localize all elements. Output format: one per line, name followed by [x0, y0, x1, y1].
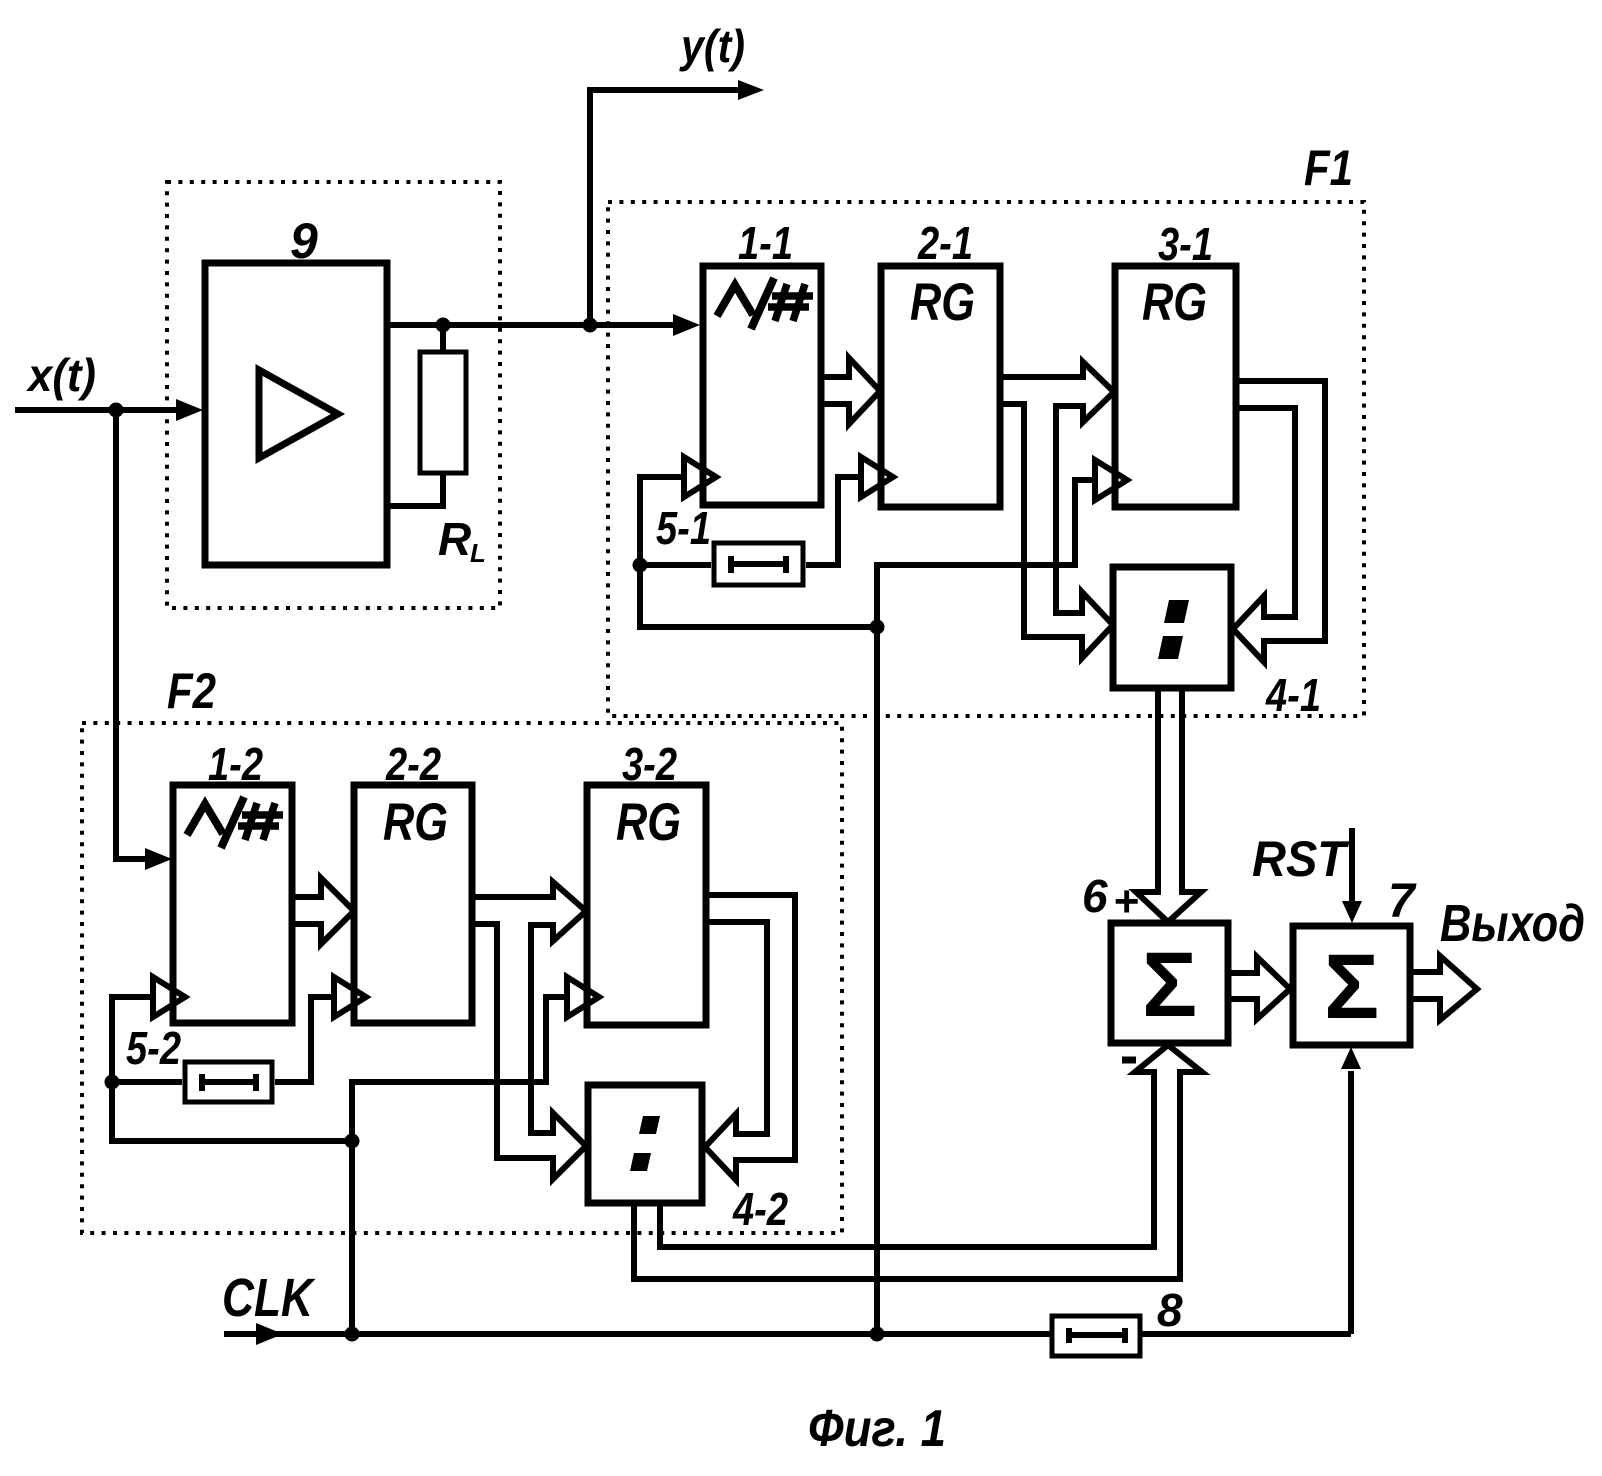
symbol ADC in 1-2	[187, 797, 283, 848]
svg-text:y(t): y(t)	[679, 20, 745, 72]
svg-text:+: +	[1113, 877, 1139, 926]
delay element 5-2	[185, 1062, 272, 1102]
svg-text:Фиг. 1: Фиг. 1	[808, 1400, 946, 1458]
node junction F1 clock mid	[870, 620, 885, 635]
amplifier triangle	[259, 370, 338, 458]
load resistor RL	[420, 352, 466, 473]
wire RL top	[440, 322, 446, 352]
node junction at RL tap	[436, 318, 451, 333]
dotted box around amplifier unit 9	[167, 182, 500, 608]
node CLK junction F2	[345, 1327, 360, 1342]
svg-text:9: 9	[290, 213, 318, 269]
wire CLK to block 7 via 8	[1341, 1047, 1361, 1334]
wire y(t) output	[590, 80, 764, 328]
node junction 5-2 input	[105, 1075, 120, 1090]
clock triangle on 3-1	[1095, 460, 1127, 500]
svg-text:2-2: 2-2	[385, 738, 441, 790]
divider block 4-2	[588, 1085, 702, 1203]
svg-text:4-2: 4-2	[732, 1183, 788, 1235]
bus arrow 2-1 to 3-1 with branch down to 4-1	[1000, 362, 1114, 658]
label minus at 6	[1122, 1057, 1136, 1064]
node junction on x(t)	[109, 403, 124, 418]
wire F1 clock riser	[640, 565, 877, 1334]
ADC block 1-1	[703, 266, 821, 505]
wire output of 9 to 1-1	[387, 314, 700, 336]
svg-text:Σ: Σ	[1142, 934, 1197, 1036]
svg-text:x(t): x(t)	[25, 349, 96, 401]
dotted box F2	[82, 723, 842, 1233]
delay element 8	[1052, 1316, 1140, 1356]
svg-text:7: 7	[1388, 875, 1417, 928]
svg-text:5-2: 5-2	[126, 1022, 181, 1074]
bus arrow 1-1 to 2-1	[821, 358, 880, 424]
wire RST input	[1342, 828, 1362, 923]
wire clock to 1-1	[640, 477, 684, 565]
svg-text:CLK: CLK	[222, 1268, 316, 1328]
summator block 7	[1293, 926, 1410, 1045]
svg-text:5-1: 5-1	[656, 502, 711, 554]
bus loop 3-2 to 4-2 right side	[705, 895, 795, 1180]
svg-text:F2: F2	[167, 663, 216, 719]
division sign in 4-2	[639, 1116, 660, 1134]
symbol ADC in 1-1	[717, 278, 813, 329]
dotted box F1	[608, 202, 1364, 716]
svg-text:R: R	[438, 513, 471, 565]
clock triangle on 1-2	[153, 977, 185, 1017]
division sign in 4-1	[1164, 600, 1189, 623]
bus arrow 4-1 down to summator 6	[1136, 688, 1201, 922]
svg-text:1-1: 1-1	[738, 217, 793, 269]
divider block 4-1	[1113, 567, 1231, 688]
register block 2-2	[354, 785, 472, 1023]
amplifier block 9	[205, 263, 387, 565]
node junction 5-1 input	[633, 558, 648, 573]
bus arrow 7 to output	[1410, 956, 1477, 1020]
node CLK junction F1	[870, 1327, 885, 1342]
svg-text:Σ: Σ	[1324, 936, 1379, 1038]
bus 4-2 to minus input of 6	[634, 1045, 1202, 1279]
svg-text:3-1: 3-1	[1158, 218, 1213, 270]
wire F2 clock riser	[112, 1082, 352, 1334]
wire RL bottom	[387, 472, 443, 506]
clock triangle on 1-1	[684, 457, 716, 497]
wire into delay 5-1	[640, 562, 711, 568]
summator block 6	[1111, 923, 1228, 1043]
wire clock to 1-2	[112, 997, 153, 1082]
bus arrow 2-2 to 3-2 with branch down to 4-2	[472, 882, 586, 1179]
clock triangle on 2-1	[861, 457, 893, 497]
bus arrow 6 to 7	[1228, 957, 1290, 1019]
svg-text:8: 8	[1157, 1284, 1183, 1336]
svg-text:RST: RST	[1252, 831, 1350, 887]
svg-text:RG: RG	[910, 273, 975, 332]
ADC block 1-2	[173, 785, 292, 1023]
svg-text:1-2: 1-2	[208, 738, 263, 790]
clock triangle on 2-2	[334, 977, 366, 1017]
node junction at y(t) tap	[583, 318, 598, 333]
svg-text:3-2: 3-2	[622, 738, 677, 790]
wire clock to 3-1	[877, 480, 1095, 627]
register block 2-1	[881, 266, 1000, 507]
svg-text:RG: RG	[616, 793, 681, 852]
svg-text:RG: RG	[383, 793, 448, 852]
bus loop 3-1 to 4-1 right side	[1233, 381, 1325, 662]
register block 3-1	[1115, 266, 1236, 507]
wire x(t) down to block 1-2	[116, 410, 172, 870]
wire delay 5-2 to 2-2 clock	[275, 997, 334, 1082]
wire clock to 3-2	[352, 997, 567, 1141]
delay element 5-1	[714, 543, 803, 585]
svg-text:L: L	[470, 538, 486, 568]
clock triangle on 3-2	[567, 977, 599, 1017]
wire CLK main line	[224, 1323, 1351, 1345]
register block 3-2	[587, 785, 706, 1025]
bus arrow 1-2 to 2-2	[292, 878, 354, 944]
svg-text:6: 6	[1082, 870, 1108, 922]
wire x(t) input	[15, 399, 203, 421]
svg-text:2-1: 2-1	[917, 217, 973, 269]
svg-text:Выход: Выход	[1440, 895, 1585, 953]
node junction F2 clock	[345, 1134, 360, 1149]
svg-text:RG: RG	[1142, 273, 1207, 332]
wire into delay 5-2	[112, 1079, 182, 1085]
svg-text:F1: F1	[1304, 140, 1353, 196]
svg-text:4-1: 4-1	[1265, 669, 1321, 721]
wire delay 5-1 to 2-1 clock	[806, 477, 861, 565]
